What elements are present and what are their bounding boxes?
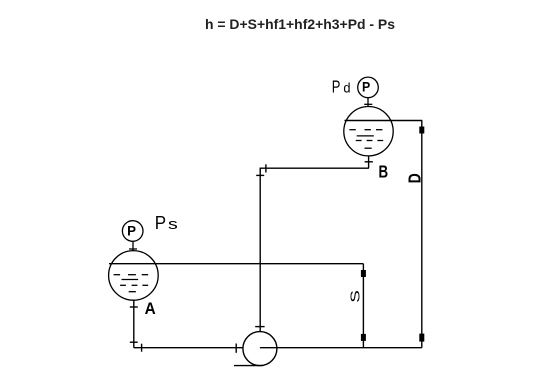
wire: horizontal pipe from tank B outlet to riser <box>260 164 369 172</box>
dimension line D <box>405 121 425 348</box>
svg-text:D: D <box>405 173 425 183</box>
svg-text:P: P <box>127 223 136 238</box>
pump P1 <box>234 332 277 366</box>
tank B outlet stem, node B <box>365 156 373 168</box>
svg-text:P: P <box>155 212 166 233</box>
pressure gauge Ps on tank A <box>122 221 143 252</box>
svg-text:B: B <box>379 163 389 182</box>
svg-text:h = D+S+hf1+hf2+h3+Pd - Ps: h = D+S+hf1+hf2+h3+Pd - Ps <box>205 16 395 32</box>
svg-text:S: S <box>348 290 362 303</box>
tank A (suction vessel) <box>109 251 159 301</box>
formula label h = D+S+hf1+hf2+h3+Pd - Ps <box>205 16 395 32</box>
label A <box>145 299 156 318</box>
wire: bottom suction pipe from tank A to pump <box>134 344 243 353</box>
wire: pump discharge baseline to D dimension <box>260 347 422 349</box>
pressure gauge Pd on tank B <box>358 77 379 107</box>
svg-text:A: A <box>145 299 156 318</box>
wire: tank A liquid level line to S dimension <box>109 263 363 265</box>
wire: vertical riser pipe to pump <box>255 168 264 332</box>
wire: tank B liquid level line to D dimension <box>345 120 423 122</box>
svg-text:s: s <box>168 215 178 232</box>
svg-text:P: P <box>332 78 341 98</box>
label Pd <box>332 78 351 98</box>
label B <box>379 163 389 182</box>
svg-text:P: P <box>362 79 370 95</box>
tank A outlet stem, node A <box>130 300 138 348</box>
dimension line S <box>348 264 366 348</box>
tank B (discharge vessel) <box>344 107 393 156</box>
svg-text:d: d <box>343 80 350 96</box>
label Ps <box>155 212 178 233</box>
